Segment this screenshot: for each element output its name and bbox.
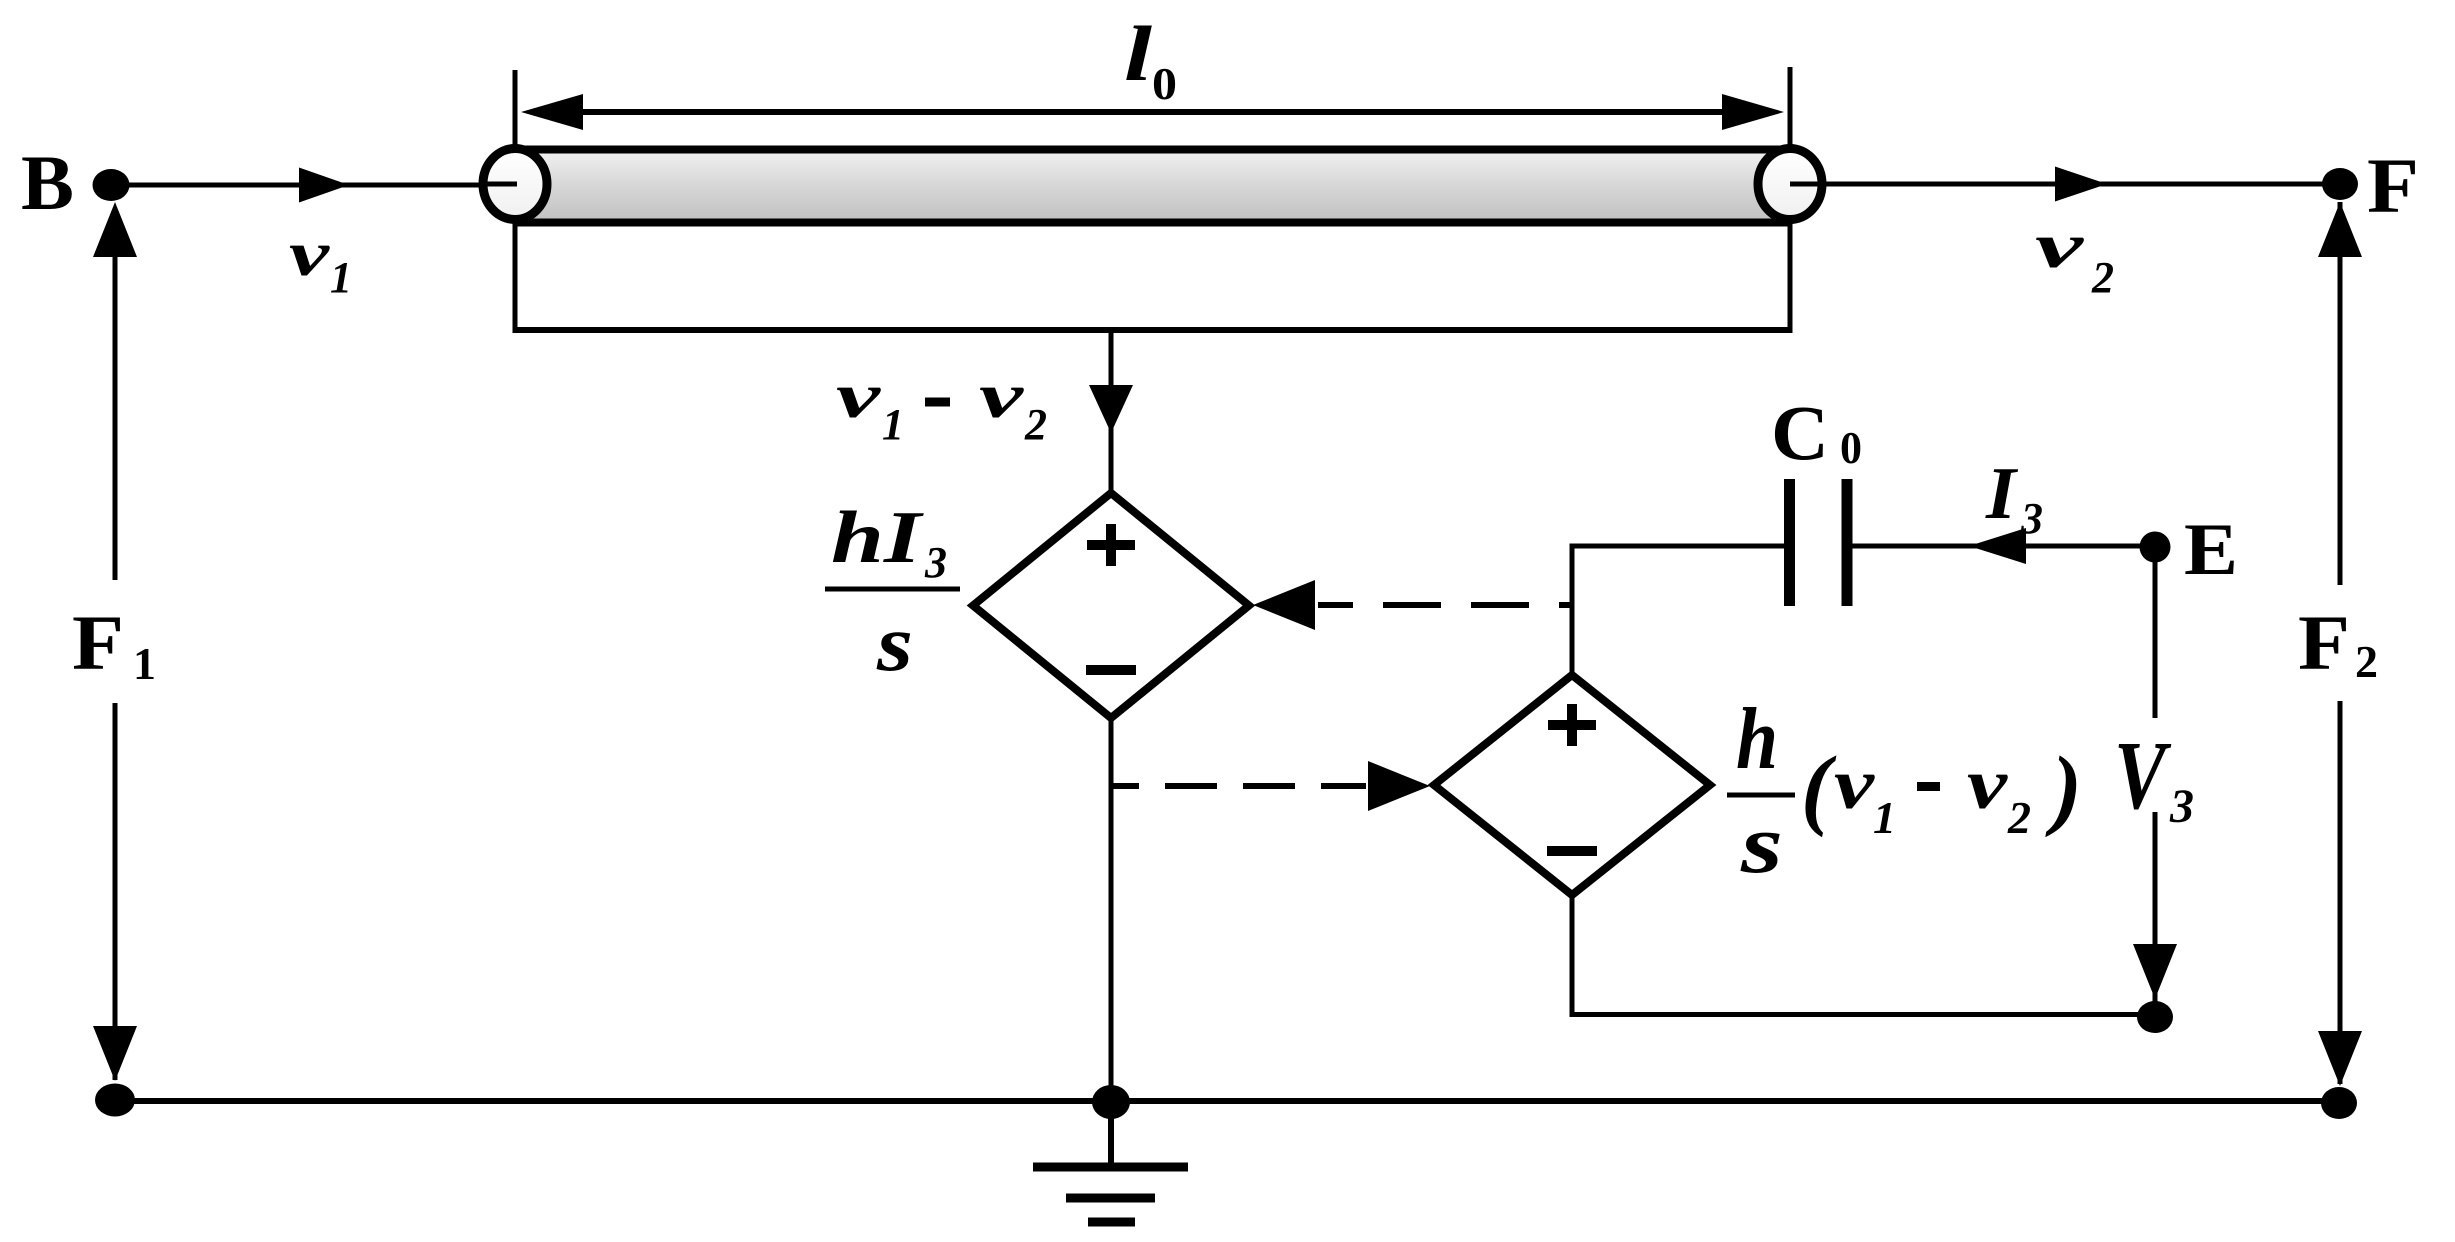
svg-text:3: 3: [2020, 494, 2043, 543]
svg-text:1: 1: [330, 253, 352, 302]
capacitor C0 wire left + corner to diamond2: [1572, 544, 1784, 549]
wire segment inside right circle: [1790, 182, 1824, 187]
wire diamond1 bottom down to ground junction: [1109, 718, 1114, 1101]
F1 force arrow down at bottom node: [93, 1026, 137, 1081]
F1 force line lower segment: [113, 703, 118, 1080]
svg-text:v: v: [979, 360, 1024, 431]
dashed wire into diamond1 right vertex: [1318, 602, 1573, 608]
svg-text:E: E: [2184, 509, 2238, 591]
svg-text:3: 3: [2169, 780, 2194, 833]
svg-text:0: 0: [1152, 58, 1177, 109]
F2 force arrow up at F: [2318, 202, 2362, 257]
F2 force line upper segment: [2338, 202, 2343, 585]
svg-text:2: 2: [1024, 400, 1047, 449]
svg-text:2: 2: [2007, 792, 2031, 843]
svg-text:l: l: [1124, 10, 1152, 97]
capacitor C0 plates: [1784, 479, 1795, 606]
svg-text:v: v: [1834, 744, 1875, 824]
svg-text:1: 1: [133, 638, 156, 689]
F1 force arrow up at B: [93, 202, 137, 257]
capacitor wire right to node E: [1852, 544, 2155, 549]
rod (cylinder) body: [515, 153, 1790, 219]
svg-text:v: v: [836, 360, 881, 431]
svg-text:s: s: [1740, 798, 1783, 891]
svg-text:1: 1: [882, 400, 904, 449]
box below rod: [513, 327, 1793, 333]
svg-text:h: h: [1736, 691, 1778, 788]
svg-text:v: v: [2035, 210, 2084, 281]
minus sign diamond2: [1547, 846, 1597, 856]
svg-text:F: F: [2298, 599, 2350, 686]
wire segment inside left circle: [481, 182, 517, 187]
wire rod to node F: [1790, 182, 2340, 187]
svg-text:V: V: [2114, 722, 2172, 830]
minus sign diamond1: [1086, 665, 1136, 675]
svg-text:v: v: [1967, 744, 2008, 824]
svg-text:C: C: [1771, 389, 1829, 476]
plus sign diamond1: [1087, 540, 1135, 550]
node E: [2140, 532, 2171, 563]
rod left end circle: [483, 149, 547, 220]
node at V3 bottom: [2137, 1001, 2173, 1033]
dimension tick left: [513, 70, 518, 330]
svg-text:0: 0: [1840, 422, 1862, 473]
bottom wire: [115, 1098, 2339, 1104]
svg-text:F: F: [2367, 142, 2419, 229]
node bottom left: [95, 1084, 135, 1117]
diamond source 1 (hI3/s): [973, 493, 1249, 718]
svg-text:s: s: [876, 600, 913, 688]
svg-text:hI: hI: [831, 497, 924, 579]
svg-text:3: 3: [924, 538, 947, 587]
diamond source 2 (h/s (v1-v2)): [1434, 675, 1710, 895]
svg-text:2: 2: [2355, 636, 2378, 687]
V3 wire from E down: [2153, 547, 2158, 718]
node F: [2322, 168, 2358, 200]
wire diamond2 bottom to V3 node: [1570, 895, 1575, 1017]
dimension tick right: [1788, 67, 1793, 330]
F2 force arrow down at bottom node: [2318, 1031, 2362, 1086]
node bottom right: [2321, 1087, 2357, 1119]
ground symbol: [1033, 1163, 1188, 1172]
F1 force line upper segment: [113, 255, 118, 580]
wire node B to rod: [111, 183, 516, 188]
wire v1-v2 down from box: [1109, 330, 1114, 496]
dimension line l0: [545, 109, 1760, 115]
svg-text:F: F: [72, 599, 124, 686]
svg-text:v: v: [289, 218, 330, 289]
ground stub wire: [1108, 1102, 1114, 1167]
svg-text:B: B: [21, 139, 74, 226]
plus sign diamond2: [1548, 720, 1596, 730]
svg-text:I: I: [1985, 453, 2018, 535]
svg-text:1: 1: [1873, 792, 1896, 843]
node B: [93, 169, 130, 201]
junction node at ground: [1092, 1085, 1130, 1119]
rod right end circle: [1758, 149, 1822, 220]
F2 force line lower segment: [2338, 701, 2343, 1084]
dashed wire into diamond2 left vertex: [1111, 783, 1366, 789]
svg-text:2: 2: [2091, 253, 2114, 302]
